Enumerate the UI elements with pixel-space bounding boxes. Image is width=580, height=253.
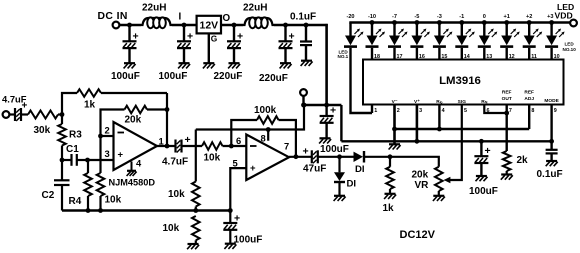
node LED rail 8 [504, 20, 509, 25]
capacitor 47uF [311, 150, 313, 163]
LED no.4 (-5dB) [416, 23, 418, 36]
svg-text:1: 1 [159, 136, 164, 147]
svg-text:10k: 10k [163, 223, 180, 234]
svg-text:100uF: 100uF [320, 144, 349, 155]
pin 2 stub [393, 105, 396, 145]
svg-text:2: 2 [397, 108, 400, 114]
svg-text:16: 16 [419, 54, 425, 60]
node I [182, 23, 187, 28]
SIG arrowhead [444, 177, 451, 183]
node LED rail 7 [482, 20, 487, 25]
svg-text:+: + [303, 146, 309, 158]
svg-text:20k: 20k [412, 170, 429, 181]
node pin6-7 [504, 111, 509, 116]
ground 100uF bias [225, 243, 236, 245]
svg-text:O: O [223, 13, 231, 24]
svg-text:Rₗₒ: Rₗₒ [436, 99, 442, 105]
svg-text:ADJ: ADJ [524, 96, 534, 102]
svg-text:V⁺: V⁺ [414, 99, 420, 105]
svg-text:10k: 10k [204, 153, 221, 164]
svg-text:6: 6 [236, 135, 241, 146]
node LED rail 9 [527, 20, 532, 25]
wire +12V down [325, 24, 328, 105]
wire L1 to 12V reg [172, 24, 197, 26]
svg-text:+: + [22, 101, 28, 112]
svg-text:-5: -5 [414, 14, 419, 20]
ground 10k lower [188, 243, 199, 245]
svg-text:10k: 10k [168, 189, 185, 200]
capacitor C2 [61, 160, 63, 180]
svg-text:I: I [179, 11, 182, 22]
svg-text:5: 5 [464, 108, 467, 114]
capacitor 100uF #2 [183, 25, 185, 41]
capacitor 100uF right [479, 139, 484, 144]
svg-text:+: + [118, 150, 124, 161]
wire +12V to pin8 [196, 105, 304, 130]
resistor 2k [503, 151, 511, 171]
svg-text:R3: R3 [69, 130, 82, 141]
svg-text:OUT: OUT [502, 96, 512, 102]
svg-text:12V: 12V [200, 21, 219, 32]
svg-text:20k: 20k [125, 115, 142, 126]
wire +12V tap down [340, 105, 342, 141]
resistor 10k b [202, 142, 223, 150]
ground DI shunt [334, 195, 345, 197]
wire reg to L2 [221, 24, 243, 26]
svg-text:220uF: 220uF [259, 73, 288, 84]
node 100k out [294, 154, 299, 159]
capacitor 0.1uF top [305, 25, 307, 42]
svg-text:DC12V: DC12V [400, 229, 436, 241]
svg-text:100uF: 100uF [159, 71, 188, 82]
pin4 ground wire [131, 162, 133, 171]
svg-text:1k: 1k [84, 100, 96, 111]
pin 8 wire [267, 130, 269, 141]
node dc-in cap junction [127, 23, 132, 28]
node LED rail 2 [370, 20, 375, 25]
node O [232, 23, 237, 28]
regulator U3 12V [197, 16, 221, 34]
svg-text:REF: REF [524, 90, 534, 96]
resistor R4 [87, 160, 89, 173]
svg-text:7: 7 [284, 141, 289, 152]
svg-text:-20: -20 [346, 14, 354, 20]
node LED rail 6 [459, 20, 464, 25]
ground 0.1uF right [546, 160, 557, 162]
svg-text:MODE: MODE [544, 98, 559, 104]
node LED rail 10 [549, 20, 554, 25]
wire LED8 cathode to pin 12 [506, 48, 508, 60]
ground 100uF right [476, 175, 487, 177]
LED no.1 (-20dB) [349, 23, 351, 36]
bus V- (pins 2,4,8) [395, 128, 530, 130]
svg-text:2: 2 [105, 125, 110, 136]
capacitor 4.7uF output [174, 140, 176, 153]
wire LED anode rail [350, 21, 352, 22]
svg-text:R4: R4 [69, 196, 82, 207]
svg-text:+: + [185, 134, 191, 146]
node diode junction [337, 154, 342, 159]
svg-text:Rₕᵢ: Rₕᵢ [481, 99, 487, 105]
wire LED9 cathode to pin 11 [528, 48, 530, 60]
bias divider upper 10k [195, 130, 197, 182]
capacitor 100uF bias [229, 211, 231, 224]
VR 20k body [435, 167, 443, 191]
ground cap3 [229, 62, 240, 64]
wire C1 to pin3 [88, 159, 114, 161]
svg-text:+: + [250, 163, 256, 174]
LED no.6 (-1dB) [461, 23, 463, 36]
bias divider lower 10k [192, 216, 200, 240]
svg-text:C2: C2 [42, 190, 55, 201]
resistor R3 [61, 115, 63, 125]
node pin2 [98, 134, 103, 139]
capacitor 0.1uF right [550, 141, 552, 150]
svg-text:SIG: SIG [458, 99, 467, 105]
pin 5 stub + SIG wire [447, 105, 462, 181]
svg-text:C1: C1 [66, 144, 79, 155]
svg-text:V⁻: V⁻ [392, 99, 398, 105]
pin 7 stub [506, 105, 508, 152]
wire op1 output [157, 145, 176, 147]
ground 100uF middle [320, 137, 331, 139]
node A [60, 112, 65, 117]
LED no.5 (-3dB) [438, 23, 440, 36]
svg-text:11: 11 [531, 54, 537, 60]
resistor 10k a [99, 136, 101, 173]
ground cap2 [179, 62, 190, 64]
svg-text:9: 9 [554, 108, 557, 114]
svg-text:+1: +1 [504, 14, 510, 20]
pin 6 stub [484, 105, 506, 114]
ground 2k [501, 173, 512, 175]
svg-text:VR: VR [415, 180, 430, 191]
svg-text:8: 8 [261, 133, 266, 144]
op-amp U1b [246, 135, 289, 181]
node LED rail 4 [415, 20, 420, 25]
capacitor 100uF #1 [128, 25, 130, 41]
svg-text:5: 5 [233, 158, 238, 169]
resistor 100k feedback [231, 120, 257, 146]
node C1 left [60, 158, 65, 163]
svg-text:12: 12 [509, 54, 515, 60]
wire diode out to VR [365, 157, 439, 167]
node pin6 [229, 144, 234, 149]
op-amp U1a [114, 122, 158, 170]
svg-text:+: + [330, 105, 336, 117]
svg-text:220uF: 220uF [214, 71, 243, 82]
svg-text:4: 4 [136, 158, 142, 169]
svg-text:13: 13 [486, 54, 492, 60]
svg-text:3: 3 [419, 108, 422, 114]
wire dc-in to L1 [119, 24, 141, 26]
svg-text:100uF: 100uF [234, 235, 263, 246]
wire 1k right down [166, 93, 168, 146]
svg-text:18: 18 [374, 54, 380, 60]
svg-text:DI: DI [355, 164, 365, 175]
svg-text:4.7uF: 4.7uF [162, 157, 188, 168]
svg-text:7: 7 [509, 108, 512, 114]
capacitor 100uF middle [325, 105, 327, 116]
node LED rail 5 [437, 20, 442, 25]
wire LED7 cathode to pin 13 [483, 48, 485, 60]
svg-text:REF: REF [502, 90, 512, 96]
svg-text:LED: LED [565, 42, 575, 47]
ground VR [433, 195, 444, 197]
wire LED6 cathode to pin 14 [461, 48, 463, 60]
capacitor 220uF #2 [284, 25, 286, 41]
svg-text:17: 17 [397, 54, 403, 60]
svg-text:2k: 2k [517, 155, 529, 166]
svg-text:100uF: 100uF [469, 186, 498, 197]
svg-text:100uF: 100uF [111, 71, 140, 82]
LED no.3 (-7dB) [393, 23, 395, 36]
svg-text:+2: +2 [526, 14, 532, 20]
svg-text:DI: DI [347, 179, 357, 190]
LED no.8 (+1dB) [506, 23, 508, 36]
wire tap horizontal [304, 104, 342, 106]
bus +12V [341, 140, 551, 142]
svg-text:47uF: 47uF [303, 164, 326, 175]
resistor 20k feedback [101, 110, 125, 137]
svg-text:DC IN: DC IN [98, 11, 128, 22]
LED no.10 (+3dB) [550, 23, 552, 36]
regulator G pin wire [208, 33, 210, 63]
IC U2 LM3916 body [363, 60, 564, 105]
svg-text:0: 0 [483, 14, 486, 20]
resistor 1k lower [388, 154, 393, 159]
wire L2 to corner [274, 24, 328, 26]
svg-text:NO.10: NO.10 [563, 47, 577, 52]
ground regulator [203, 62, 214, 64]
svg-text:-7: -7 [392, 14, 397, 20]
svg-text:22uH: 22uH [243, 3, 267, 14]
pin 9 stub [550, 105, 552, 142]
wire LED3 cathode to pin 17 [393, 48, 395, 60]
terminal 12V tap [300, 89, 307, 96]
svg-text:VDD: VDD [555, 11, 573, 21]
diode DI shunt [338, 157, 340, 173]
capacitor 4.7uF input [9, 113, 15, 115]
wire LED1 cathode around IC [351, 48, 373, 113]
wire to 10k b [182, 145, 203, 147]
svg-text:100k: 100k [254, 105, 277, 116]
svg-text:0.1uF: 0.1uF [537, 169, 563, 180]
inductor L2 22uH [243, 18, 274, 25]
bias rail [62, 209, 230, 211]
LED no.7 (0dB) [483, 23, 485, 36]
svg-text:1k: 1k [383, 203, 395, 214]
wire tap down [302, 96, 304, 105]
inductor L1 22uH [141, 18, 172, 25]
svg-text:14: 14 [464, 54, 470, 60]
svg-text:G: G [211, 33, 218, 43]
node pin9 +12V [549, 139, 554, 144]
svg-text:-10: -10 [368, 14, 376, 20]
svg-text:-1: -1 [459, 14, 464, 20]
wire op2 out rail [289, 156, 312, 158]
pin 8 stub [528, 105, 530, 130]
svg-text:4: 4 [442, 108, 445, 114]
resistor 30k [28, 111, 58, 119]
terminal LED VDD [570, 20, 577, 27]
wire LED4 cathode to pin 16 [416, 48, 418, 60]
capacitor 220uF #1 [233, 25, 235, 41]
node 220uF #2 [283, 23, 288, 28]
LED no.9 (+2dB) [528, 23, 530, 36]
svg-text:3: 3 [105, 148, 110, 159]
resistor 1k feedback [62, 93, 77, 115]
ground cap1 [124, 62, 135, 64]
svg-text:10k: 10k [105, 195, 122, 206]
pin 4 stub [438, 105, 440, 130]
capacitor C1 [62, 159, 72, 161]
ground 0.1uF top [301, 60, 312, 62]
svg-text:+3: +3 [547, 14, 553, 20]
svg-text:0.1uF: 0.1uF [290, 11, 316, 22]
svg-text:30k: 30k [34, 125, 51, 136]
svg-text:NO.1: NO.1 [338, 54, 349, 59]
ground cap4 [280, 62, 291, 64]
diode DI series [340, 156, 354, 158]
svg-text:LM3916: LM3916 [439, 75, 481, 87]
wire LED2 cathode to pin 18 [371, 48, 373, 60]
terminal DC IN [113, 22, 120, 29]
terminal audio input [3, 111, 10, 118]
svg-text:8: 8 [531, 108, 534, 114]
pin 3 stub [416, 105, 419, 142]
svg-text:10: 10 [554, 54, 560, 60]
svg-text:1: 1 [374, 108, 377, 114]
svg-text:22uH: 22uH [142, 3, 166, 14]
ground 1k [385, 193, 396, 195]
ground pin2 [389, 143, 400, 145]
pin 5 wire [230, 168, 246, 210]
svg-text:15: 15 [441, 54, 447, 60]
node pin3 +12V [415, 139, 420, 144]
svg-text:-3: -3 [437, 14, 442, 20]
svg-text:NJM4580D: NJM4580D [109, 178, 156, 188]
LED no.2 (-10dB) [371, 23, 373, 36]
node LED rail 3 [392, 20, 397, 25]
wire LED10 cathode to pin 10 [550, 48, 552, 60]
wire LED5 cathode to pin 15 [438, 48, 440, 60]
pin 1 stub [371, 105, 373, 114]
node 0.1uF top [304, 23, 309, 28]
